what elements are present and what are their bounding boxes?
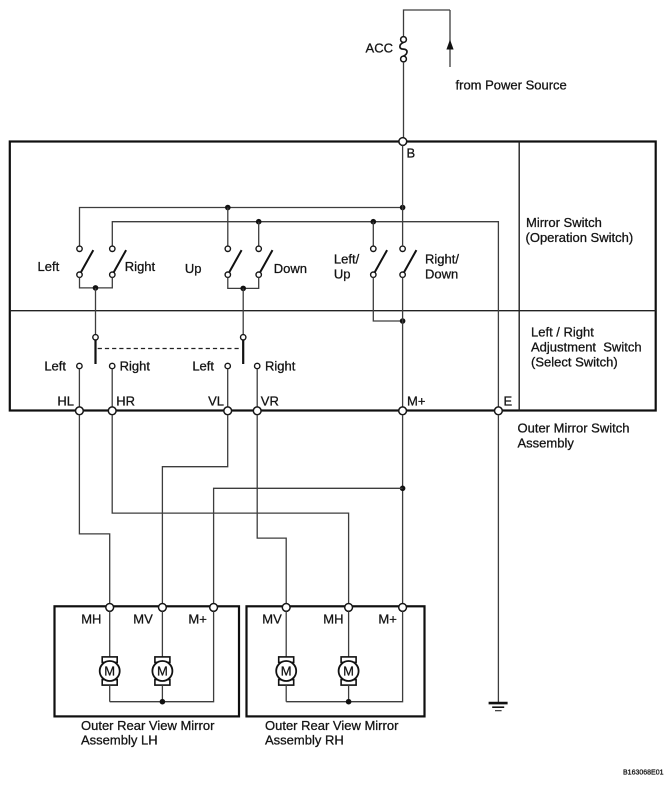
svg-text:Mirror Switch: Mirror Switch — [526, 215, 602, 230]
svg-text:Outer Rear View Mirror: Outer Rear View Mirror — [81, 718, 215, 733]
svg-text:MH: MH — [81, 611, 101, 626]
divider of right label panel — [518, 142, 520, 411]
svg-text:Left: Left — [38, 259, 60, 274]
svg-text:MV: MV — [262, 611, 282, 626]
svg-text:Right: Right — [125, 259, 156, 274]
node MH (RH) — [345, 604, 353, 612]
wire fuse to node B — [403, 62, 405, 138]
select contact Right (HR) — [110, 363, 115, 368]
wire MV terminal to motor (RH) — [285, 611, 287, 657]
svg-text:Assembly: Assembly — [518, 435, 575, 450]
svg-text:M+: M+ — [407, 393, 425, 408]
node M+ (RH) — [399, 604, 407, 612]
svg-text:ACC: ACC — [366, 41, 393, 56]
svg-text:M: M — [281, 664, 292, 679]
select wiper B — [241, 335, 246, 364]
switch Right — [110, 246, 126, 277]
svg-text:M: M — [104, 664, 115, 679]
svg-text:M: M — [343, 664, 354, 679]
wire common bus (RH) — [286, 611, 402, 701]
junction M+ branch — [400, 486, 406, 492]
wire MH motor to common bus (RH) — [348, 685, 350, 702]
node MH (LH) — [106, 604, 114, 612]
select contact Left (VL) — [225, 363, 230, 368]
wire Right/Down switch to M+ terminal — [402, 277, 404, 407]
wire MH terminal to motor — [109, 611, 111, 657]
motor M vertical (RH) — [276, 657, 296, 685]
wire common to wiper B — [242, 288, 244, 334]
wire Left/Right switch common — [80, 277, 113, 288]
svg-text:Outer Mirror Switch: Outer Mirror Switch — [518, 420, 630, 435]
junction bus / MV motor (LH) — [160, 699, 166, 705]
svg-text:Left: Left — [192, 359, 214, 374]
node M+ (LH) — [210, 604, 218, 612]
svg-text:Down: Down — [274, 261, 307, 276]
wire M+ branch to LH mirror M+ — [214, 488, 403, 603]
svg-text:E: E — [504, 393, 513, 408]
wire MV motor to common bus (LH) — [161, 685, 163, 702]
motor M vertical (LH) — [152, 657, 172, 685]
svg-text:(Operation Switch): (Operation Switch) — [526, 230, 634, 245]
wire VR contact to terminal — [256, 369, 258, 407]
svg-text:(Select Switch): (Select Switch) — [531, 355, 618, 370]
wire HL to LH mirror MH — [79, 415, 109, 604]
svg-text:B: B — [407, 146, 416, 161]
svg-text:Adjustment Switch: Adjustment Switch — [531, 339, 642, 354]
svg-text:Right: Right — [265, 359, 296, 374]
svg-text:M: M — [157, 664, 168, 679]
junction Left/Right common — [93, 285, 99, 291]
junction bus1 / M+ column — [400, 205, 406, 211]
node E — [495, 407, 503, 415]
junction common / M+ column — [400, 318, 406, 324]
svg-text:from Power Source: from Power Source — [456, 78, 567, 93]
select wiper A — [93, 335, 98, 364]
fuse ACC — [400, 37, 407, 62]
wire E to ground — [497, 415, 499, 703]
wire M+ to RH mirror M+ — [402, 415, 404, 604]
arrow from power source (pointing up) — [446, 40, 453, 50]
wire MV motor to common bus (RH) — [285, 685, 287, 702]
junction Up/Down common — [240, 286, 246, 292]
svg-text:Up: Up — [334, 267, 351, 282]
node B terminal — [399, 138, 407, 146]
wire riser Left/Up switch — [372, 222, 374, 247]
junction bus / MH motor (RH) — [346, 699, 352, 705]
divider between operation and select sections — [10, 310, 656, 312]
svg-text:VL: VL — [208, 393, 224, 408]
switch Down — [256, 246, 273, 277]
node MV (LH) — [159, 604, 167, 612]
svg-text:Assembly LH: Assembly LH — [81, 732, 158, 747]
switch Left/Up — [371, 246, 388, 277]
node M+ — [399, 407, 407, 415]
svg-text:MV: MV — [133, 611, 153, 626]
motor M horizontal (LH) — [100, 657, 120, 685]
wire operation bus 1 (Left / Up feed) — [80, 208, 403, 247]
svg-text:M+: M+ — [378, 611, 396, 626]
wire Left/Up + Right/Down common — [373, 277, 402, 321]
wire operation bus 2 (Right / Down feed, to E) — [112, 222, 498, 407]
wire VL contact to terminal — [227, 369, 229, 407]
svg-text:Right/: Right/ — [425, 252, 459, 267]
svg-text:HR: HR — [116, 393, 135, 408]
svg-text:Left: Left — [44, 359, 66, 374]
wire from fuse top to power source corner — [404, 10, 451, 37]
junction bus2 / Left-Up switch — [371, 219, 377, 225]
svg-text:Down: Down — [425, 267, 458, 282]
svg-text:Left / Right: Left / Right — [531, 324, 594, 339]
svg-text:Right: Right — [120, 359, 151, 374]
svg-text:Outer Rear View Mirror: Outer Rear View Mirror — [265, 718, 399, 733]
outer mirror switch assembly box — [10, 142, 656, 411]
wire MH terminal to motor (RH) — [348, 611, 350, 657]
svg-text:VR: VR — [261, 393, 279, 408]
switch Right/Down — [400, 246, 417, 277]
wire common bus (LH) — [110, 611, 214, 701]
outer rear view mirror assembly LH box — [55, 606, 240, 716]
svg-text:MH: MH — [323, 611, 343, 626]
junction bus2 / Down switch — [256, 219, 262, 225]
node HL — [76, 407, 84, 415]
motor M horizontal (RH) — [339, 657, 359, 685]
svg-text:M+: M+ — [188, 611, 206, 626]
wire VR to RH mirror MV — [257, 415, 286, 604]
node VR — [253, 407, 261, 415]
wire HR to RH mirror MH — [112, 415, 348, 604]
node VL — [224, 407, 232, 415]
wire VL to LH mirror MV — [162, 415, 227, 604]
wire node B to Right/Down switch (M+ column upper) — [402, 145, 404, 246]
select contact Left (HL) — [77, 363, 82, 368]
mechanical linkage (dashed) — [98, 348, 241, 350]
junction bus1 / Up switch — [225, 205, 231, 211]
node HR — [108, 407, 116, 415]
wire MV terminal to motor — [161, 611, 163, 657]
svg-text:Assembly RH: Assembly RH — [265, 732, 344, 747]
wire HR contact to terminal — [111, 369, 113, 407]
wire common to wiper A — [95, 288, 97, 335]
svg-text:HL: HL — [57, 393, 74, 408]
svg-text:B163068E01: B163068E01 — [623, 770, 664, 777]
wire MH motor to common bus (LH) — [109, 685, 111, 702]
svg-text:Up: Up — [185, 261, 202, 276]
outer rear view mirror assembly RH box — [247, 606, 425, 716]
svg-text:Left/: Left/ — [334, 252, 360, 267]
select contact Right (VR) — [255, 363, 260, 368]
switch Left — [77, 246, 94, 277]
wire riser Down switch — [258, 222, 260, 247]
wire riser Up switch — [227, 208, 229, 247]
node MV (RH) — [282, 604, 290, 612]
switch Up — [225, 246, 242, 277]
wire HL contact to terminal — [78, 369, 80, 407]
wire Up/Down switch common — [228, 277, 259, 288]
wire power source lead — [449, 10, 451, 67]
ground — [489, 703, 508, 711]
